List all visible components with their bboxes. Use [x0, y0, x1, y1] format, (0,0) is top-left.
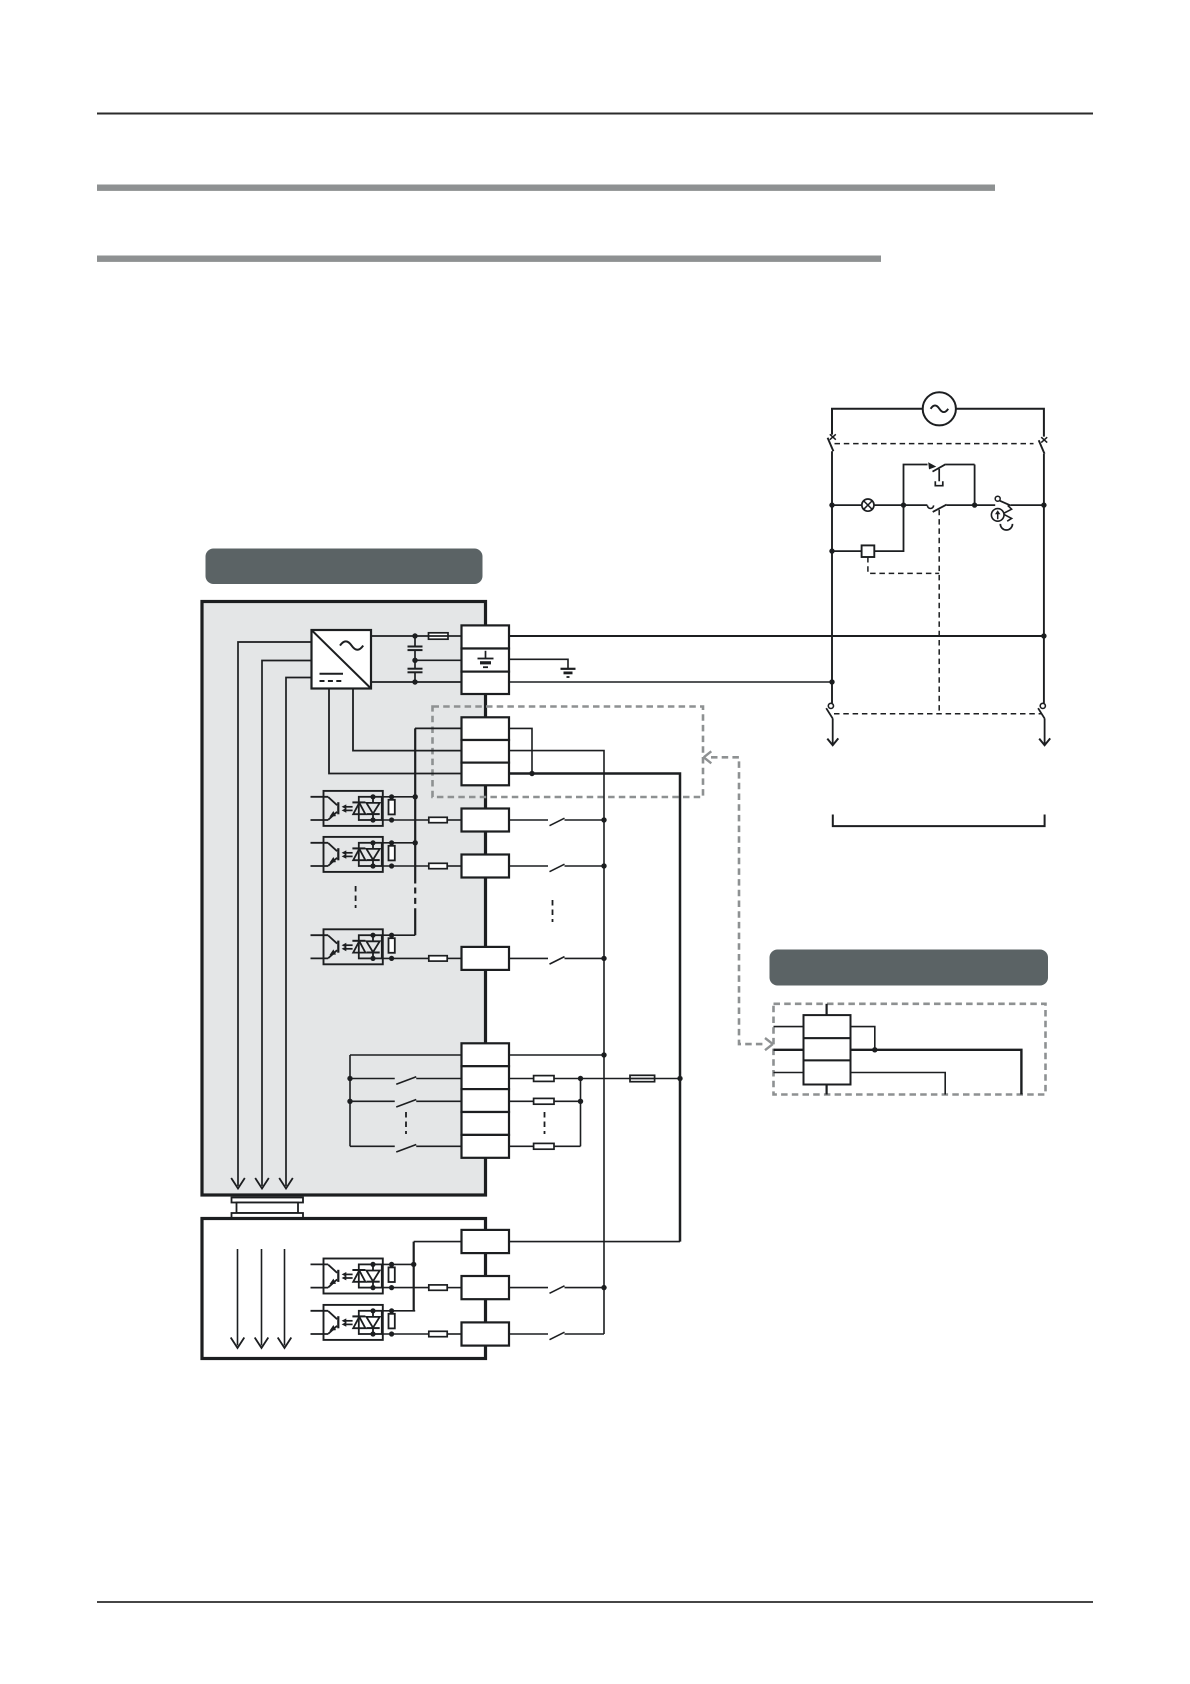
label: power supply unit heading	[770, 950, 1049, 986]
fuse expansion input 1	[429, 1285, 447, 1290]
junction opto rail 1	[413, 794, 418, 799]
breaker right pole contact	[1041, 437, 1047, 442]
relay coil K1	[862, 545, 875, 557]
page top rule	[97, 113, 1093, 115]
opto-coupler expansion input 2	[324, 1305, 383, 1340]
wire: fuse to expansion terminal 2	[447, 1333, 461, 1335]
wire: service row2 feed (thick)	[851, 1050, 1022, 1095]
dashed box: input common circuit	[433, 707, 704, 798]
capacitor C1	[414, 636, 416, 646]
wire: service terminal row3 left	[774, 1072, 804, 1074]
expansion connector	[232, 1198, 304, 1203]
wire: load1 to thick feed	[655, 1078, 680, 1080]
wire: coil branch left	[832, 550, 862, 552]
wire: rung left segment	[832, 504, 862, 506]
power supply converter box	[312, 630, 372, 689]
junction	[677, 1076, 682, 1081]
external input switch 3	[509, 957, 548, 959]
page bottom rule	[97, 1601, 1093, 1603]
wire: +24V rail to IN COM terminal	[415, 727, 462, 729]
expansion terminal COM	[462, 1230, 510, 1253]
disconnect arrow	[827, 738, 838, 745]
terminal + (input com)	[462, 717, 510, 740]
junction	[601, 863, 606, 868]
ellipsis: more inputs (switch)	[552, 900, 554, 922]
fuse load supply	[630, 1075, 655, 1081]
junction	[529, 771, 534, 776]
junction	[578, 1099, 583, 1104]
external input switch 1	[509, 819, 548, 821]
external input switch exp2	[509, 1333, 548, 1335]
fuse load 1	[534, 1076, 554, 1082]
main unit enclosure	[202, 602, 486, 1196]
ellipsis: more outputs (contacts)	[405, 1112, 407, 1134]
junction	[829, 502, 834, 507]
AC source G1	[923, 392, 956, 425]
wire: rung to overload	[975, 504, 996, 506]
wire: rung mid segment	[874, 504, 927, 506]
circuit protector contact	[995, 496, 1000, 501]
disconnect mechanical link (dashed)	[834, 713, 1042, 715]
wire: converter stub to terminal row2	[353, 689, 462, 751]
wire: service row3 return	[851, 1073, 946, 1095]
wire: service terminal row2 left (thick)	[774, 1049, 804, 1051]
service power link (dashed)	[711, 757, 764, 1044]
wire: converter stub to terminal row3	[329, 689, 462, 774]
output terminal Y2	[462, 1089, 510, 1112]
wire: expansion rail	[413, 1242, 415, 1311]
service terminal row3	[804, 1060, 851, 1084]
wire: source to right pole	[956, 409, 1044, 437]
junction	[1041, 633, 1046, 638]
input terminal X2	[462, 855, 510, 878]
wire: L terminal to breaker right pole	[509, 635, 1044, 637]
opto-coupler input 3	[324, 929, 383, 964]
circuit protector bowl	[1000, 524, 1012, 530]
relay contact output 1	[350, 1078, 395, 1080]
expansion bus arrow 2	[261, 1249, 263, 1346]
internal bus wire 3	[286, 678, 312, 1187]
junction	[829, 679, 834, 684]
output terminal Yn	[462, 1135, 510, 1158]
wire: load n to rail	[554, 1145, 581, 1147]
expansion terminal X2	[462, 1322, 510, 1345]
junction	[901, 502, 906, 507]
expansion unit enclosure	[202, 1219, 486, 1359]
coil to contact link (dashed)	[868, 557, 939, 573]
wire: output n to load	[509, 1145, 534, 1147]
expansion bus arrow 3	[284, 1249, 286, 1346]
wire: fuse to input terminal 2	[447, 865, 461, 867]
fuse input 3	[429, 956, 447, 961]
section heading bar 1	[97, 185, 995, 191]
terminal COM (input)	[462, 740, 510, 763]
fuse input 2	[429, 863, 447, 868]
NO start contact	[927, 505, 933, 508]
junction	[412, 633, 417, 638]
wire: converter + output	[371, 635, 429, 637]
circuit protector reset symbol	[991, 509, 1004, 522]
load bracket	[833, 815, 1045, 827]
wire: output COM to feed	[509, 1054, 604, 1056]
fuse F1	[429, 633, 449, 639]
junction	[601, 956, 606, 961]
external input switch 2	[509, 865, 548, 867]
disconnect contact	[828, 703, 833, 708]
junction	[347, 1099, 352, 1104]
earth ground symbol	[561, 668, 576, 670]
FG terminal earth symbol	[485, 651, 487, 659]
connector arrow into power box	[765, 1038, 773, 1050]
terminal N (power input)	[462, 672, 510, 694]
wire: load return rail	[580, 1079, 582, 1147]
dashed box: service power supply	[774, 1004, 1046, 1095]
converter AC sine	[340, 641, 363, 649]
wire: fuse to expansion terminal 1	[447, 1287, 461, 1289]
disconnect contact	[1040, 703, 1045, 708]
ellipsis: more inputs (left)	[355, 886, 357, 908]
internal bus arrow 3	[279, 1178, 293, 1189]
service terminal row1	[804, 1015, 851, 1038]
junction	[347, 1076, 352, 1081]
fuse load 2	[534, 1098, 554, 1104]
opto-coupler input 2	[324, 837, 383, 872]
external input switch exp1	[509, 1287, 548, 1289]
wire: NC branch down-right	[974, 465, 976, 506]
breaker left pole contact	[830, 434, 836, 439]
junction	[412, 679, 417, 684]
wire: opto common rail (dashed continuation)	[414, 888, 416, 914]
wire: FG to earth	[509, 659, 568, 668]
ellipsis: more outputs (loads)	[544, 1112, 546, 1134]
wire: load1 link	[554, 1078, 630, 1080]
opto-coupler expansion input 1	[324, 1259, 383, 1294]
terminal L (power input)	[462, 625, 510, 648]
wire: load2 to rail	[554, 1100, 581, 1102]
wire: fuse to terminal	[448, 635, 462, 637]
output terminal Y1	[462, 1066, 510, 1089]
terminal - (24V out)	[462, 763, 510, 786]
disconnect arrow	[1039, 738, 1050, 745]
connector arrow into input box	[704, 751, 712, 763]
relay contact output n	[350, 1145, 395, 1147]
internal bus wire 2	[262, 661, 312, 1187]
section heading bar 2	[97, 256, 881, 262]
expansion bus arrow 1	[237, 1249, 239, 1346]
wire: rung right segment	[1011, 504, 1044, 506]
junction	[829, 548, 834, 553]
NC stop button operator	[938, 469, 940, 482]
wire: expansion COM terminal	[414, 1241, 462, 1243]
junction	[972, 502, 977, 507]
junction	[872, 1047, 877, 1052]
wire: NC branch up-left	[904, 465, 928, 506]
wire: cap midpoint to FG terminal	[415, 659, 462, 661]
converter DC solid line	[320, 673, 344, 675]
input terminal X3	[462, 947, 510, 970]
converter diagonal	[312, 630, 372, 689]
fuse input 1	[429, 817, 447, 822]
junction	[411, 1262, 416, 1267]
service terminal stub top	[825, 1004, 827, 1015]
junction	[1041, 502, 1046, 507]
NO contact link (dashed)	[938, 510, 940, 714]
wire: input common feed	[509, 751, 604, 1334]
input terminal X1	[462, 809, 510, 832]
expansion terminal X1	[462, 1276, 510, 1299]
wire: output common left rail	[349, 1055, 351, 1146]
internal bus arrow 1	[231, 1178, 245, 1189]
fuse expansion input 2	[429, 1331, 447, 1336]
wire: expansion COM to thick feed	[509, 1241, 680, 1243]
opto-coupler input 1	[324, 791, 383, 826]
wire: opto common rail	[414, 728, 416, 883]
internal bus arrow 2	[255, 1178, 269, 1189]
wire: fuse to input terminal 3	[447, 957, 461, 959]
NC stop button contact	[928, 462, 936, 469]
label: main unit heading	[206, 549, 483, 585]
wire: service row1 branch	[851, 1027, 875, 1050]
fuse load n	[534, 1143, 554, 1149]
circuit protector thermal element	[1003, 505, 1012, 521]
terminal FG (functional earth)	[462, 649, 510, 672]
capacitor C2	[414, 660, 416, 668]
junction opto rail 2	[413, 840, 418, 845]
wire: coil branch right	[874, 505, 903, 551]
wire: output1 to load	[509, 1078, 534, 1080]
wire: converter - output	[371, 681, 462, 683]
wire: output2 to load	[509, 1100, 534, 1102]
junction	[601, 1285, 606, 1290]
wire: fuse to input terminal 1	[447, 819, 461, 821]
wire: left vertical	[831, 451, 833, 703]
junction	[578, 1076, 583, 1081]
output terminal Y3	[462, 1112, 510, 1135]
wire: source to left pole	[832, 409, 923, 435]
wire: right vertical	[1043, 454, 1045, 704]
junction	[601, 817, 606, 822]
pilot lamp H1	[862, 499, 874, 511]
service terminal row2	[804, 1038, 851, 1060]
relay contact output 2	[350, 1100, 395, 1102]
service terminal stub bottom	[825, 1085, 827, 1095]
wire: output row1	[350, 1054, 462, 1056]
junction	[412, 658, 417, 663]
wire: N terminal to breaker left pole	[509, 681, 832, 683]
wire: service terminal row1 left	[774, 1026, 804, 1028]
output terminal COM	[462, 1043, 510, 1066]
converter DC dashed line	[320, 680, 344, 682]
junction	[601, 1052, 606, 1057]
wire: opto common rail lower	[414, 914, 416, 936]
breaker mechanical link (dashed)	[835, 443, 1034, 445]
wire: 24V feed (thick)	[509, 774, 680, 1242]
wire: COM terminal right branch	[509, 728, 532, 773]
internal bus wire 1	[238, 642, 312, 1186]
